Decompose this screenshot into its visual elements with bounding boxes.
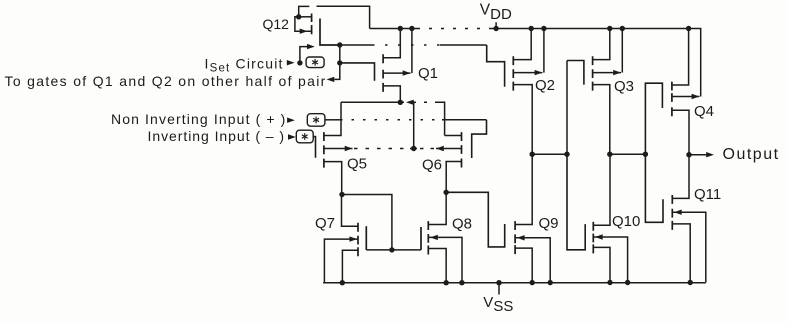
transistor Q4 channel [671, 82, 673, 117]
wire Q3 gate down to mirror node [566, 61, 568, 155]
transistor Q3 drain finger down [593, 85, 610, 155]
wire gate bus vertical [339, 45, 341, 63]
svg-text:Non Inverting Input ( + ): Non Inverting Input ( + ) [111, 111, 286, 127]
svg-text:Q2: Q2 [535, 77, 555, 94]
node Q1 drain / tail [398, 100, 403, 105]
wire VDD rail left [370, 28, 417, 30]
node rail-Q2 bulk [541, 26, 546, 31]
node Q2 drain-Q9 drain [530, 152, 535, 157]
transistor Q7 source finger to VSS [342, 250, 358, 282]
transistor Q1 source finger to rail [383, 29, 400, 58]
node VSS-Q9 bulk [548, 280, 553, 285]
wire VDD rail dashes [417, 28, 490, 30]
wire mirror gate bus [366, 249, 421, 251]
wire top link to VDD rail [317, 6, 370, 28]
transistor Q3 bulk finger [593, 72, 621, 74]
transistor Q1 gate lead and bar [340, 63, 375, 81]
wire common line solid [410, 148, 417, 150]
wire Q2 drain to Q3 gate node [532, 153, 567, 155]
transistor Q7 channel [357, 223, 359, 256]
transistor Q7 drain finger up [342, 195, 359, 227]
node gate bus bottom [337, 60, 342, 65]
svg-text:To gates of Q1 and Q2 on other: To gates of Q1 and Q2 on other half of p… [5, 73, 327, 89]
wire Q6 drain to Q9 gate [446, 192, 505, 247]
transistor Q2 gate lead and bar [487, 45, 505, 87]
transistor Q10 drain finger up [593, 154, 610, 225]
node VSS pin [496, 280, 501, 285]
transistor Q10 source finger to VSS [593, 247, 610, 282]
wire non-inv input to Q6 gate (solid) [325, 119, 340, 121]
wire VSS rail [323, 282, 706, 284]
wire Q5 drain node to mirror gates [342, 195, 392, 250]
wire common line Q6 side dashes [418, 148, 435, 150]
node diff pair common [411, 146, 416, 151]
wire bias line to Q2 gate (solid part) [340, 44, 372, 46]
transistor Q12 gate bar and lead [320, 19, 340, 46]
transistor Q3 gate lead and bar [567, 61, 584, 85]
node Q4 gate junction [643, 152, 648, 157]
transistor Q7 bulk finger to VSS [324, 239, 358, 282]
node rail-Q1 source [398, 26, 403, 31]
wire Q3 gate node down to Q10 gate [567, 154, 585, 250]
transistor Q9 drain finger up [515, 154, 532, 224]
transistor Q2 drain finger down [513, 85, 532, 155]
wire to other half of pair [334, 63, 340, 80]
node Q6 drain [443, 190, 448, 195]
transistor Q11 drain finger up to output [672, 155, 689, 199]
wire output stub [689, 154, 707, 156]
transistor Q6 bulk arrow [436, 146, 444, 151]
wire non-inv input to Q6 gate (dash) [340, 119, 442, 121]
svg-text:Q4: Q4 [694, 103, 714, 120]
wire VSS pin tick [498, 283, 500, 295]
wire Q12 drain hook up [299, 6, 310, 16]
wire Q1 bulk to rail [411, 29, 413, 74]
wire Q2 bulk to rail [543, 29, 545, 73]
svg-text:Inverting Input ( – ): Inverting Input ( – ) [148, 128, 285, 144]
transistor Q9 bulk arrow [517, 235, 525, 240]
wire ISet to Q12 gate [300, 47, 308, 63]
wire tail line dashes [413, 101, 437, 103]
node ISet junction [297, 60, 302, 65]
transistor Q12 source arrow [300, 29, 308, 34]
transistor Q12 channel [311, 14, 313, 35]
node Q3 drain-Q10 drain [607, 152, 612, 157]
transistor Q9 channel [514, 221, 516, 254]
transistor Q11 source finger to VSS [672, 224, 690, 283]
node Q5 drain [339, 192, 344, 197]
transistor Q4 bulk finger [672, 96, 700, 98]
transistor Q8 source finger to VSS [428, 249, 446, 283]
transistor Q5 gate lead and bar [313, 137, 315, 158]
transistor Q1 bulk finger [383, 72, 410, 74]
svg-text:Q7: Q7 [315, 215, 335, 232]
transistor Q11 bulk finger to VSS rail end [672, 212, 706, 282]
transistor Q8 bulk arrow [430, 235, 438, 240]
transistor Q5 drain finger down [324, 162, 342, 195]
transistor Q4 gate lead and bar [645, 83, 662, 154]
svg-text:Q11: Q11 [694, 186, 721, 203]
node Q12 drain-gate junction [296, 14, 301, 19]
transistor Q6 gate lead and bar [472, 120, 487, 158]
svg-text:Q12: Q12 [263, 16, 290, 32]
transistor Q2 source finger to rail [513, 29, 531, 60]
transistor Q5 channel [323, 132, 325, 168]
pin box ISet (asterisk) [306, 57, 324, 68]
transistor Q3 source finger to rail [593, 29, 610, 60]
wire tail drop to common sources [413, 103, 415, 149]
node VSS-Q9 source [530, 280, 535, 285]
arrow ISet-to-gate [307, 44, 315, 49]
transistor Q6 channel [461, 132, 463, 167]
transistor Q2 bulk arrow [535, 70, 543, 75]
transistor Q3 channel [592, 56, 594, 90]
transistor Q2 channel [512, 56, 514, 90]
transistor Q7 bulk arrow [349, 236, 357, 241]
svg-text:Q8: Q8 [452, 215, 472, 232]
node rail-Q4 source [686, 26, 691, 31]
transistor Q8 channel [427, 221, 429, 254]
arrow output [706, 152, 714, 157]
node VSS-Q10 source [607, 280, 612, 285]
node gate bus top [337, 42, 342, 47]
node VSS-Q10 bulk [625, 280, 630, 285]
pin box inverting input (asterisk) [296, 130, 313, 143]
wire VDD rail right [490, 29, 701, 97]
transistor Q12 drain finger [299, 16, 312, 18]
wire Q3 bulk to rail [621, 29, 623, 73]
transistor Q11 bulk arrow [674, 210, 682, 215]
transistor Q10 channel [592, 222, 594, 254]
transistor Q8 gate bar [420, 227, 422, 250]
transistor Q6 bulk finger [436, 148, 462, 150]
node VSS-Q8 bulk [459, 280, 464, 285]
svg-text:Q9: Q9 [539, 215, 559, 232]
wire non-inv input to Q6 gate (end) [442, 119, 487, 121]
transistor Q6 drain finger down [446, 162, 461, 193]
transistor Q5 bulk arrow [345, 146, 353, 151]
node rail-Q2 source [529, 26, 534, 31]
transistor Q10 bulk finger to VSS [593, 237, 627, 283]
node VDD pin [493, 26, 498, 31]
transistor Q1 bulk arrow [403, 70, 411, 75]
svg-text:Output: Output [723, 146, 780, 163]
node rail-Q3 bulk [620, 26, 625, 31]
arrow non-inverting input [287, 118, 295, 123]
transistor Q9 bulk finger to VSS [515, 238, 550, 283]
pin box non-inverting input (asterisk) [307, 114, 325, 127]
wire tail line Q5-Q1-Q6 (left) [341, 101, 404, 103]
transistor Q12 source lead with left link [295, 17, 312, 31]
transistor Q5 bulk finger [324, 148, 353, 150]
transistor Q4 drain finger down to output [672, 110, 689, 154]
wire Q3 drain to Q4 gate node [610, 153, 646, 155]
transistor Q10 bulk arrow [595, 234, 603, 239]
transistor Q1 drain finger down [383, 86, 400, 102]
transistor Q1 channel [382, 54, 384, 92]
node rail-Q1 bulk [409, 26, 414, 31]
node rail-Q3 source [607, 26, 612, 31]
wire tail line to Q6 [437, 102, 445, 135]
wire VDD pin tick [495, 22, 497, 28]
svg-text:Q6: Q6 [422, 156, 442, 173]
node VSS-Q8 source [443, 280, 448, 285]
transistor Q7 gate bar [365, 226, 367, 250]
transistor Q4 source finger to rail [672, 29, 689, 86]
node VSS-Q7 source [340, 280, 345, 285]
transistor Q6 source finger (to tail) [445, 135, 462, 137]
transistor Q9 source finger to VSS [515, 248, 532, 282]
node mirror gate junction [389, 247, 394, 252]
svg-text:Q1: Q1 [418, 65, 438, 82]
arrow to other half of pair [327, 77, 335, 82]
node Q3 gate-Q10 gate [564, 152, 569, 157]
wire Q4 gate node down to Q11 gate [645, 154, 663, 222]
svg-text:Q5: Q5 [347, 156, 367, 173]
wire common line dashes [354, 148, 410, 150]
transistor Q5 source finger up [324, 102, 341, 135]
transistor Q3 bulk arrow [613, 70, 621, 75]
node output [686, 152, 691, 157]
wire bias line to Q2 gate (end part) [440, 44, 487, 46]
arrow ISet input [287, 60, 295, 65]
transistor Q11 channel [671, 195, 673, 230]
arrow inline on tail line [406, 100, 414, 105]
transistor Q8 bulk finger to VSS [428, 237, 462, 282]
arrow inverting input [288, 134, 296, 139]
node VSS-Q11 source [688, 280, 693, 285]
transistor Q8 drain finger up [428, 192, 446, 224]
transistor Q4 bulk arrow [692, 94, 700, 99]
wire bias line to Q2 gate (dash part) [372, 44, 440, 46]
svg-text:Q3: Q3 [614, 78, 634, 95]
transistor Q2 bulk finger [513, 72, 542, 74]
svg-text:Q10: Q10 [612, 213, 640, 230]
